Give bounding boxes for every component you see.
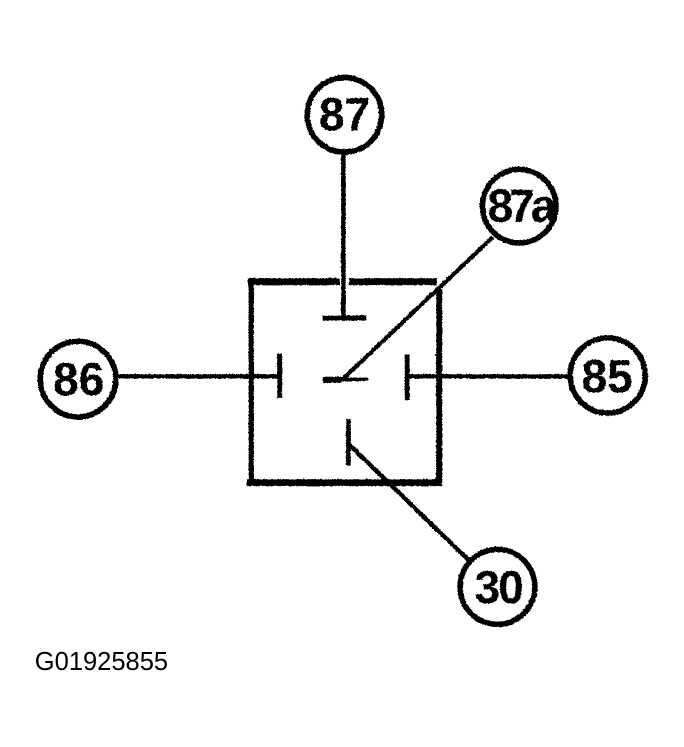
- relay box K1: [246, 278, 439, 486]
- armature tip wedge: [323, 376, 342, 382]
- terminal circle 87: [307, 77, 382, 152]
- leader line to 87a: [342, 237, 492, 379]
- svg-text:87a: 87a: [487, 179, 556, 231]
- leader line to 30: [348, 443, 469, 560]
- wire pin 30: [345, 419, 350, 465]
- svg-text:30: 30: [474, 561, 522, 613]
- svg-text:85: 85: [581, 349, 632, 401]
- svg-text:87: 87: [318, 88, 369, 140]
- wire pin 87: [341, 151, 345, 317]
- terminal circle 85: [569, 337, 644, 412]
- svg-text:86: 86: [52, 353, 103, 405]
- wire pin 86: [116, 374, 278, 378]
- contact bar 85: [404, 354, 409, 399]
- terminal circle 30: [459, 549, 534, 624]
- terminal circle 86: [40, 341, 116, 417]
- contact bar 86: [277, 353, 282, 397]
- terminal circle 87a: [482, 169, 555, 242]
- svg-text:G01925855: G01925855: [35, 648, 168, 676]
- wire pin 85: [407, 374, 569, 378]
- contact bar 87: [322, 315, 366, 320]
- armature common contact bar: [322, 377, 368, 380]
